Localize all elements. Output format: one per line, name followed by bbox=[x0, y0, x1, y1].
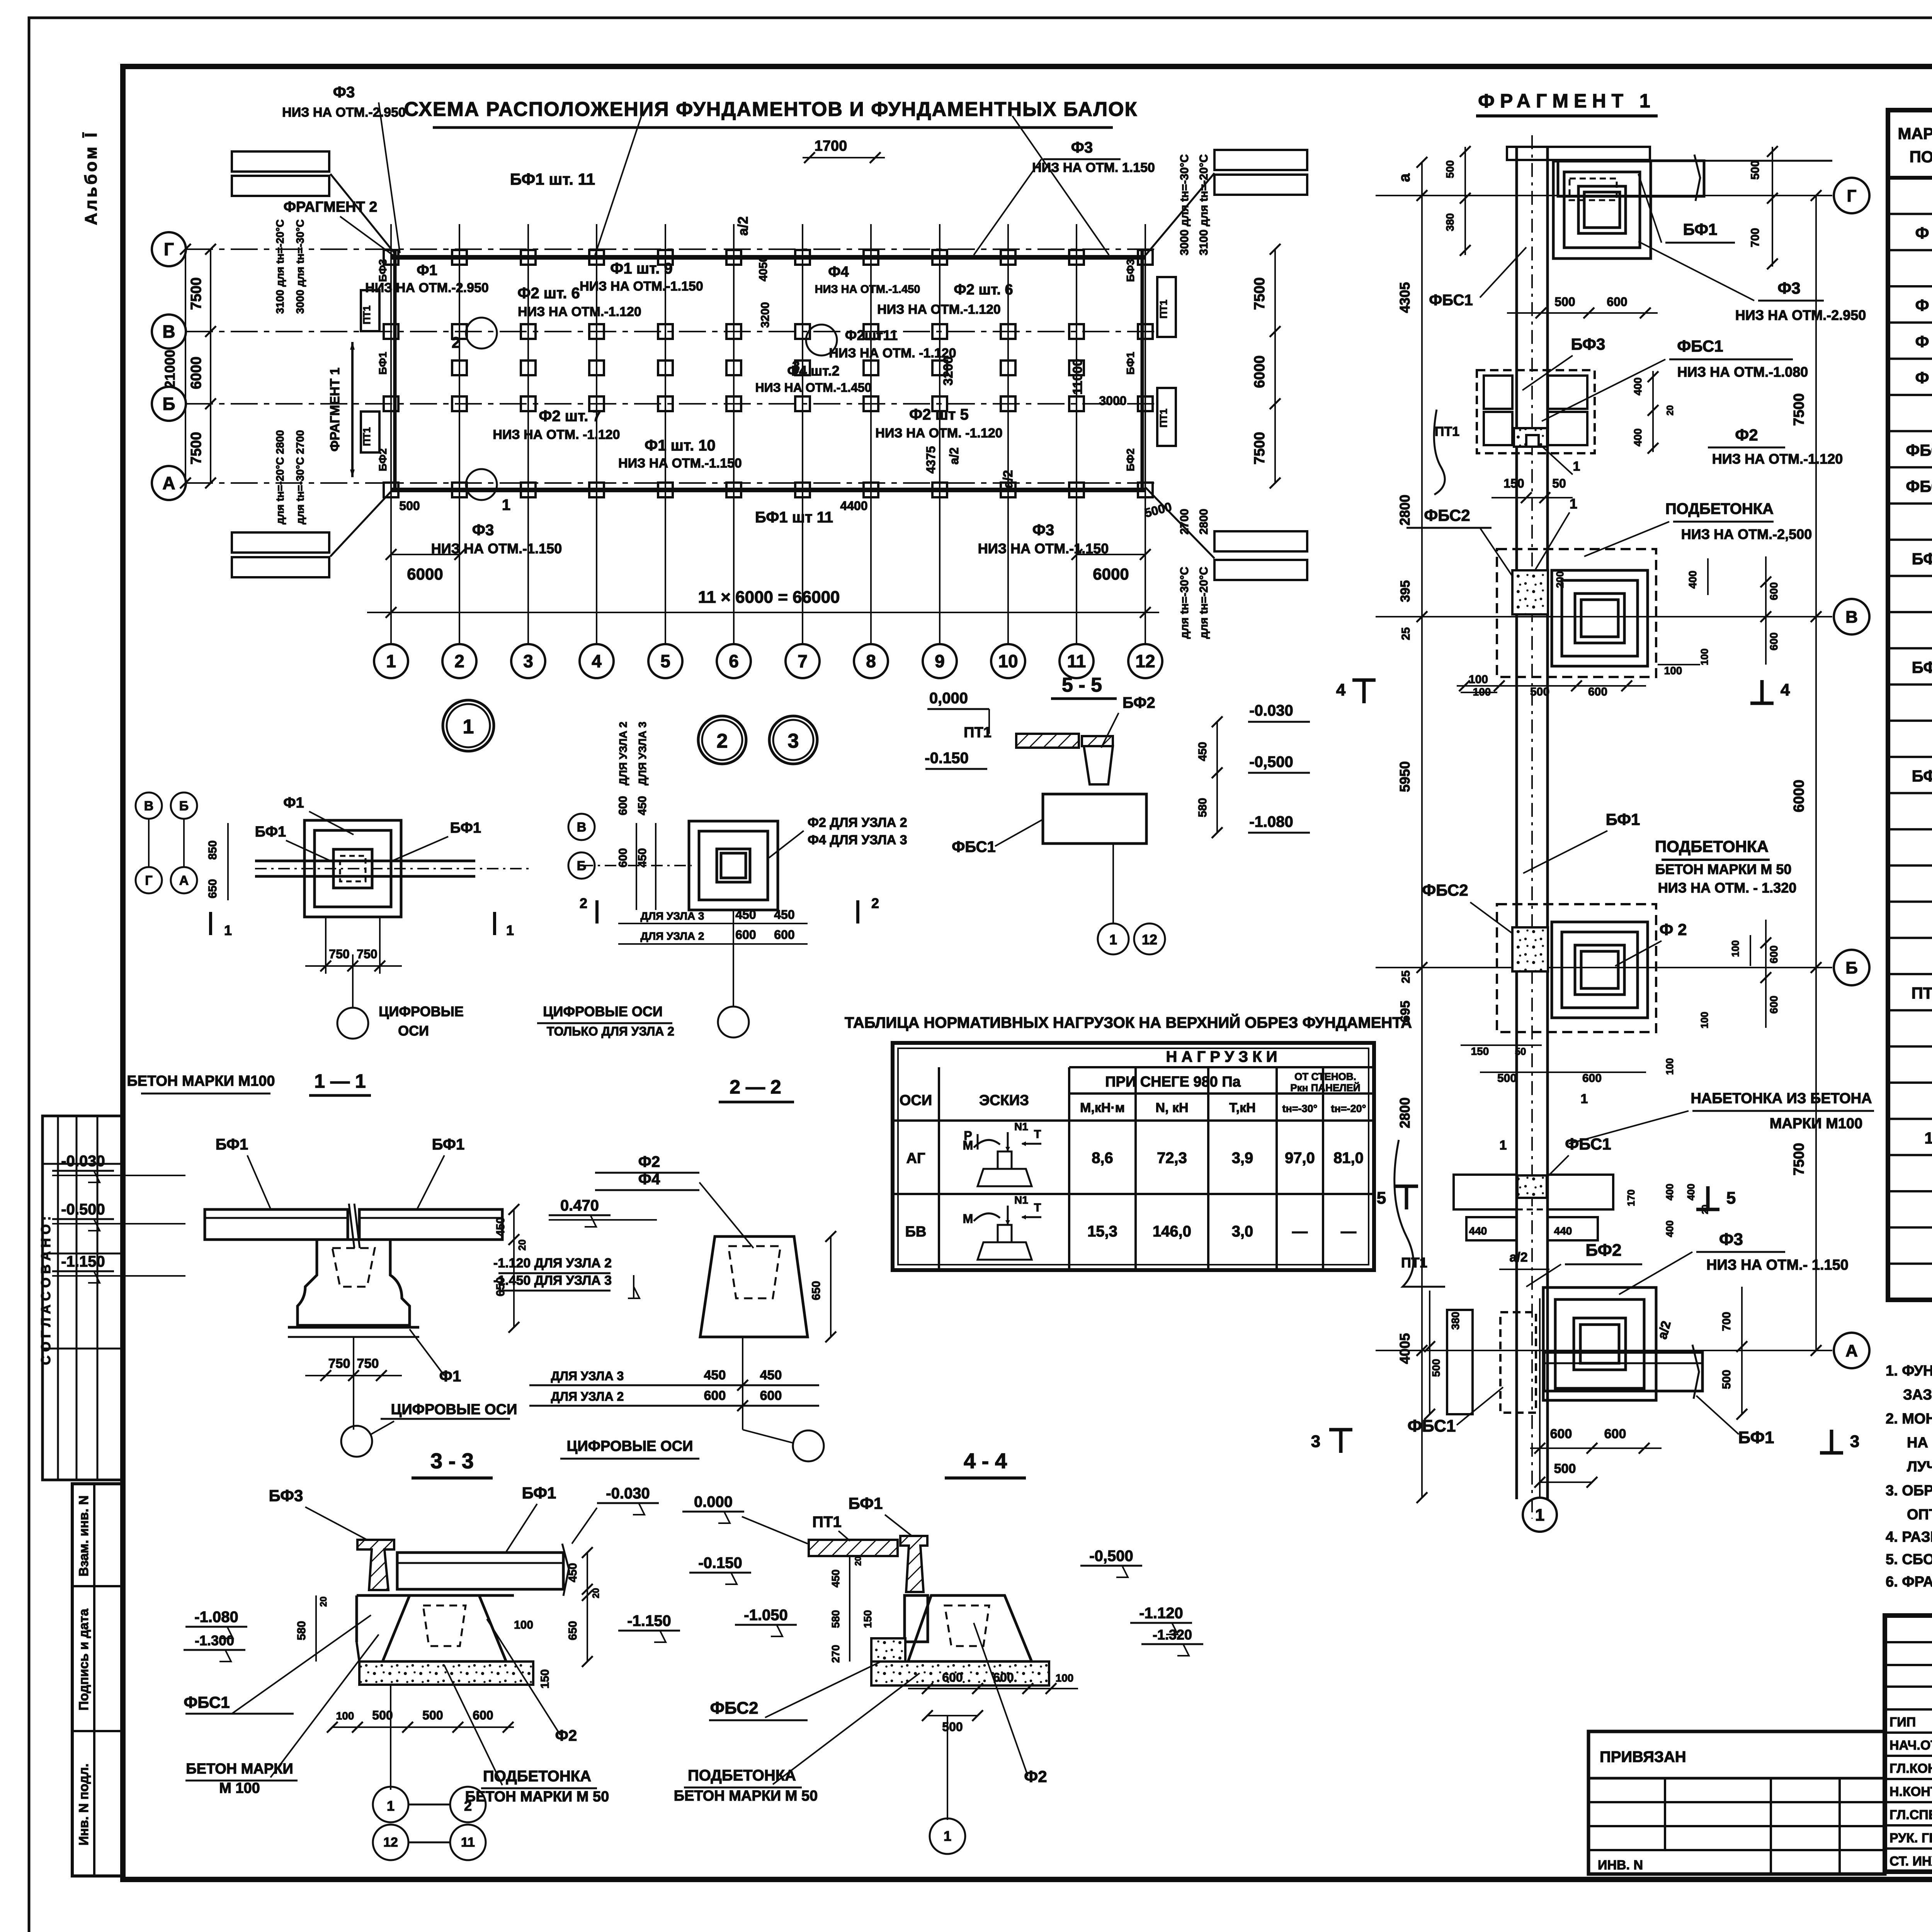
svg-text:ЭСКИЗ: ЭСКИЗ bbox=[979, 1092, 1029, 1109]
svg-text:3: 3 bbox=[1850, 1432, 1859, 1451]
svg-text:150: 150 bbox=[1503, 476, 1524, 490]
svg-text:600: 600 bbox=[473, 1708, 493, 1722]
svg-text:-1.320: -1.320 bbox=[1153, 1627, 1192, 1643]
svg-text:6000: 6000 bbox=[1252, 355, 1268, 388]
svg-text:580: 580 bbox=[830, 1610, 842, 1628]
svg-text:В: В bbox=[162, 321, 175, 342]
svg-text:Б: Б bbox=[162, 394, 175, 414]
svg-text:500: 500 bbox=[1497, 1072, 1517, 1085]
svg-text:БЕТОН МАРКИ М 50: БЕТОН МАРКИ М 50 bbox=[465, 1789, 609, 1805]
column footing squares grid bbox=[384, 250, 398, 265]
svg-text:Ф 3: Ф 3 bbox=[1915, 332, 1932, 350]
svg-text:3000 для tн=-30°С: 3000 для tн=-30°С bbox=[1178, 154, 1191, 255]
svg-text:440: 440 bbox=[1469, 1225, 1487, 1237]
svg-text:11: 11 bbox=[1067, 651, 1086, 671]
svg-text:Г: Г bbox=[145, 873, 152, 888]
svg-text:Р: Р bbox=[964, 1129, 972, 1143]
fragment foundation at Г bbox=[1553, 161, 1651, 259]
svg-text:ДЛЯ УЗЛА 2: ДЛЯ УЗЛА 2 bbox=[641, 930, 704, 942]
svg-text:ДЛЯ УЗЛА 3: ДЛЯ УЗЛА 3 bbox=[641, 910, 704, 922]
svg-text:БЕТОН МАРКИ М 50: БЕТОН МАРКИ М 50 bbox=[1655, 861, 1792, 877]
svg-text:ПОДБЕТОНКА: ПОДБЕТОНКА bbox=[483, 1768, 591, 1785]
svg-text:440: 440 bbox=[1554, 1225, 1572, 1237]
svg-text:6000: 6000 bbox=[407, 565, 443, 583]
svg-text:750: 750 bbox=[357, 947, 377, 961]
svg-text:-1.300: -1.300 bbox=[195, 1633, 234, 1648]
svg-text:650: 650 bbox=[810, 1281, 823, 1300]
end wall panels left bbox=[232, 151, 329, 172]
svg-text:Н А Г Р У З К И: Н А Г Р У З К И bbox=[1166, 1048, 1277, 1065]
svg-text:1: 1 bbox=[387, 1798, 395, 1814]
svg-text:2: 2 bbox=[454, 651, 464, 671]
dim 1700 bbox=[803, 157, 885, 158]
svg-text:Ф3: Ф3 bbox=[1777, 279, 1800, 297]
svg-text:Подпись и дата: Подпись и дата bbox=[77, 1608, 91, 1711]
svg-text:БФ1: БФ1 bbox=[216, 1136, 248, 1153]
svg-text:3000 для tн=-30°С: 3000 для tн=-30°С bbox=[294, 219, 306, 314]
svg-text:БФ1: БФ1 bbox=[1912, 549, 1932, 568]
svg-text:450: 450 bbox=[636, 796, 649, 815]
section 2-2 drawing bbox=[700, 1236, 808, 1337]
svg-text:БЕТОН МАРКИ М100: БЕТОН МАРКИ М100 bbox=[127, 1073, 275, 1089]
svg-text:20: 20 bbox=[318, 1597, 329, 1607]
leader lines plan bbox=[379, 102, 400, 253]
svg-text:5: 5 bbox=[660, 651, 670, 671]
svg-text:Ф2: Ф2 bbox=[1024, 1767, 1047, 1786]
svg-text:600: 600 bbox=[1768, 946, 1780, 964]
svg-text:а: а bbox=[1396, 173, 1413, 182]
svg-text:Ф1: Ф1 bbox=[439, 1368, 461, 1385]
svg-text:ФРАГМЕНТ 1: ФРАГМЕНТ 1 bbox=[1478, 90, 1655, 112]
svg-text:для tн=-20°С 2800: для tн=-20°С 2800 bbox=[274, 430, 286, 524]
svg-text:НАБЕТОНКА ИЗ БЕТОНА: НАБЕТОНКА ИЗ БЕТОНА bbox=[1690, 1090, 1872, 1107]
svg-text:1: 1 bbox=[1570, 496, 1577, 512]
left stamp boxes lower bbox=[72, 1484, 123, 1876]
svg-text:600: 600 bbox=[1604, 1427, 1626, 1441]
svg-text:450: 450 bbox=[830, 1570, 842, 1588]
node detail circles 2 3 bbox=[698, 716, 746, 764]
svg-text:4305: 4305 bbox=[1397, 282, 1413, 313]
svg-text:БФ3: БФ3 bbox=[269, 1486, 303, 1505]
svg-text:БФ3: БФ3 bbox=[1571, 335, 1605, 353]
node plan 1 bbox=[304, 820, 401, 917]
svg-text:МАРКА,: МАРКА, bbox=[1898, 124, 1932, 143]
svg-text:-1.080: -1.080 bbox=[194, 1609, 238, 1626]
svg-text:М,кН·м: М,кН·м bbox=[1080, 1100, 1125, 1115]
svg-text:ФРАГМЕНТ 2: ФРАГМЕНТ 2 bbox=[284, 199, 378, 215]
svg-text:Ф 2: Ф 2 bbox=[1660, 920, 1687, 939]
svg-text:В: В bbox=[577, 820, 587, 835]
svg-text:ПОДБЕТОНКА: ПОДБЕТОНКА bbox=[1665, 500, 1774, 517]
svg-text:4. РАЗМЕР „а” ПРИНИМАТЬ СОГЛА: 4. РАЗМЕР „а” ПРИНИМАТЬ СОГЛАСНО ТАБЛИЦЕ… bbox=[1886, 1529, 1932, 1545]
svg-text:20: 20 bbox=[1665, 405, 1675, 416]
svg-text:600: 600 bbox=[942, 1670, 963, 1684]
svg-text:N1: N1 bbox=[1014, 1121, 1028, 1133]
svg-text:1700: 1700 bbox=[815, 138, 847, 154]
svg-text:270: 270 bbox=[830, 1645, 842, 1663]
svg-text:0.470: 0.470 bbox=[560, 1197, 599, 1214]
svg-text:Ф1 шт. 10: Ф1 шт. 10 bbox=[645, 437, 716, 454]
svg-text:200: 200 bbox=[1554, 571, 1566, 588]
svg-text:ФБС1: ФБС1 bbox=[1906, 441, 1932, 459]
svg-text:1: 1 bbox=[1924, 1129, 1932, 1147]
svg-text:500: 500 bbox=[1530, 685, 1549, 698]
svg-text:БФ3: БФ3 bbox=[377, 259, 389, 282]
svg-text:4: 4 bbox=[592, 651, 602, 671]
svg-text:500: 500 bbox=[422, 1708, 443, 1722]
svg-text:7500: 7500 bbox=[1252, 277, 1268, 310]
svg-text:450: 450 bbox=[704, 1368, 726, 1383]
svg-text:БФ1 шт. 11: БФ1 шт. 11 bbox=[510, 170, 595, 188]
svg-text:1: 1 bbox=[944, 1828, 951, 1844]
svg-text:0.000: 0.000 bbox=[694, 1493, 733, 1510]
svg-text:25: 25 bbox=[1400, 627, 1412, 640]
load table bbox=[893, 1043, 1374, 1270]
svg-text:ПОДБЕТОНКА: ПОДБЕТОНКА bbox=[1655, 837, 1769, 855]
svg-text:2800: 2800 bbox=[1197, 509, 1210, 535]
svg-text:400: 400 bbox=[1664, 1220, 1675, 1237]
svg-text:НИЗ НА ОТМ.-1.150: НИЗ НА ОТМ.-1.150 bbox=[618, 456, 742, 471]
svg-text:450: 450 bbox=[636, 848, 649, 867]
svg-text:БФ1: БФ1 bbox=[1683, 220, 1718, 238]
svg-text:tн=-20°: tн=-20° bbox=[1331, 1103, 1366, 1114]
svg-text:750: 750 bbox=[329, 947, 349, 961]
svg-text:-1.120 ДЛЯ УЗЛА 2: -1.120 ДЛЯ УЗЛА 2 bbox=[493, 1256, 612, 1270]
svg-text:1: 1 bbox=[1535, 1505, 1544, 1524]
svg-text:7500: 7500 bbox=[1791, 1143, 1807, 1176]
svg-text:НАЧ.ОТД.: НАЧ.ОТД. bbox=[1889, 1738, 1932, 1753]
svg-text:700: 700 bbox=[1720, 1312, 1733, 1331]
svg-text:-1.080: -1.080 bbox=[1249, 813, 1293, 830]
svg-text:4 - 4: 4 - 4 bbox=[964, 1449, 1007, 1473]
svg-text:С О Г Л А С О В А Н О :: С О Г Л А С О В А Н О : bbox=[39, 1216, 53, 1365]
svg-text:600: 600 bbox=[774, 928, 794, 942]
svg-text:380: 380 bbox=[1449, 1312, 1461, 1330]
svg-text:0,000: 0,000 bbox=[929, 690, 968, 707]
svg-text:НИЗ НА ОТМ.-1.120: НИЗ НА ОТМ.-1.120 bbox=[1712, 451, 1843, 467]
svg-text:-0.030: -0.030 bbox=[606, 1485, 650, 1502]
svg-text:100: 100 bbox=[336, 1710, 354, 1722]
svg-text:ИНВ. N: ИНВ. N bbox=[1598, 1858, 1643, 1872]
svg-text:450: 450 bbox=[494, 1217, 507, 1236]
svg-text:11 × 6000 = 66000: 11 × 6000 = 66000 bbox=[698, 588, 840, 607]
svg-text:600: 600 bbox=[1768, 582, 1780, 600]
svg-text:СХЕМА РАСПОЛОЖЕНИЯ ФУНДАМЕНТ: СХЕМА РАСПОЛОЖЕНИЯ ФУНДАМЕНТОВ И ФУНДАМЕ… bbox=[404, 98, 1138, 121]
svg-text:ПРИВЯЗАН: ПРИВЯЗАН bbox=[1600, 1748, 1686, 1765]
svg-text:Ф3: Ф3 bbox=[1032, 522, 1054, 539]
section marks 5-5 bbox=[1405, 1186, 1408, 1209]
svg-text:-0.500: -0.500 bbox=[61, 1201, 105, 1218]
svg-text:15,3: 15,3 bbox=[1087, 1223, 1117, 1240]
svg-text:600: 600 bbox=[1607, 295, 1627, 309]
svg-text:для tн=-20°С: для tн=-20°С bbox=[1197, 567, 1210, 639]
svg-text:2: 2 bbox=[464, 1798, 472, 1814]
svg-text:4005: 4005 bbox=[1397, 1333, 1413, 1364]
svg-text:7500: 7500 bbox=[1791, 393, 1807, 426]
svg-text:100: 100 bbox=[1056, 1672, 1074, 1684]
svg-text:БФ3: БФ3 bbox=[1912, 767, 1932, 785]
svg-text:3200: 3200 bbox=[759, 302, 772, 328]
svg-text:-0.030: -0.030 bbox=[1249, 702, 1293, 719]
svg-text:500: 500 bbox=[1749, 160, 1762, 180]
svg-text:72,3: 72,3 bbox=[1157, 1150, 1187, 1167]
svg-text:7: 7 bbox=[798, 651, 808, 671]
svg-text:tн=-30°: tн=-30° bbox=[1282, 1103, 1318, 1114]
svg-text:850: 850 bbox=[206, 840, 219, 860]
svg-text:2. МОНОЛИТНЫЕ ЭЛЕМЕНТЫ ПОДБЕ: 2. МОНОЛИТНЫЕ ЭЛЕМЕНТЫ ПОДБЕТОНОК ИЗ БЕТ… bbox=[1886, 1410, 1932, 1427]
svg-text:БФ1: БФ1 bbox=[450, 820, 481, 836]
svg-text:НИЗ НА ОТМ. -1.120: НИЗ НА ОТМ. -1.120 bbox=[875, 426, 1002, 440]
svg-text:2: 2 bbox=[452, 334, 460, 351]
section marks 1-1 at node 1 bbox=[209, 912, 212, 935]
svg-text:600: 600 bbox=[760, 1388, 782, 1403]
svg-text:7500: 7500 bbox=[188, 432, 204, 465]
svg-text:4375: 4375 bbox=[924, 446, 938, 473]
svg-text:395: 395 bbox=[1398, 580, 1413, 602]
section marks 3-3 bbox=[1339, 1430, 1343, 1453]
svg-text:500: 500 bbox=[1720, 1370, 1733, 1389]
svg-text:ЦИФРОВЫЕ: ЦИФРОВЫЕ bbox=[379, 1003, 464, 1019]
svg-text:100: 100 bbox=[514, 1619, 533, 1631]
svg-text:БФ1: БФ1 bbox=[522, 1484, 556, 1502]
privyazan attachment box bbox=[1588, 1731, 1885, 1874]
svg-text:ЗАЗОРЫ МЕЖДУ ТОРЦАМИ ФУНДАМ: ЗАЗОРЫ МЕЖДУ ТОРЦАМИ ФУНДАМЕНТНЫХ БАЛОК … bbox=[1903, 1387, 1932, 1403]
svg-text:3: 3 bbox=[788, 730, 799, 752]
svg-text:а/2: а/2 bbox=[1509, 1250, 1527, 1265]
svg-text:580: 580 bbox=[295, 1621, 308, 1640]
svg-text:НИЗ НА ОТМ.-1.450: НИЗ НА ОТМ.-1.450 bbox=[755, 381, 872, 395]
svg-text:3,0: 3,0 bbox=[1232, 1223, 1253, 1240]
svg-text:500: 500 bbox=[1554, 1461, 1576, 1476]
svg-text:НИЗ НА ОТМ. 1.150: НИЗ НА ОТМ. 1.150 bbox=[1032, 160, 1155, 175]
svg-text:Альбом Ī: Альбом Ī bbox=[82, 130, 100, 225]
svg-text:Н.КОНТР.: Н.КОНТР. bbox=[1889, 1784, 1932, 1799]
plan detail mark circles bbox=[466, 318, 497, 349]
svg-text:ЦИФРОВЫЕ ОСИ: ЦИФРОВЫЕ ОСИ bbox=[391, 1401, 517, 1418]
svg-text:3100 для tн=-20°С: 3100 для tн=-20°С bbox=[1197, 154, 1210, 255]
svg-text:1: 1 bbox=[502, 497, 510, 514]
svg-text:-1.150: -1.150 bbox=[61, 1253, 105, 1270]
svg-text:N1: N1 bbox=[1014, 1194, 1028, 1206]
svg-text:100: 100 bbox=[1699, 1012, 1710, 1028]
svg-text:БФ1 шт 11: БФ1 шт 11 bbox=[755, 509, 833, 526]
svg-text:2800: 2800 bbox=[1397, 495, 1413, 526]
svg-text:5: 5 bbox=[1377, 1189, 1386, 1207]
svg-text:5: 5 bbox=[1726, 1189, 1736, 1207]
svg-text:20: 20 bbox=[853, 1556, 863, 1566]
svg-text:150: 150 bbox=[862, 1610, 874, 1628]
svg-text:НИЗ НА ОТМ.-1.120: НИЗ НА ОТМ.-1.120 bbox=[877, 302, 1001, 317]
svg-text:9: 9 bbox=[935, 651, 945, 671]
svg-text:-1.120: -1.120 bbox=[1139, 1605, 1183, 1622]
svg-text:500: 500 bbox=[942, 1720, 963, 1734]
svg-text:Ф3: Ф3 bbox=[472, 522, 494, 539]
svg-text:НИЗ НА ОТМ. - 1.320: НИЗ НА ОТМ. - 1.320 bbox=[1658, 880, 1797, 896]
svg-text:7500: 7500 bbox=[1252, 432, 1268, 465]
svg-text:Ф3: Ф3 bbox=[1071, 139, 1093, 156]
svg-text:ПТ1: ПТ1 bbox=[361, 305, 372, 324]
svg-text:ФБС2: ФБС2 bbox=[1422, 881, 1468, 899]
svg-text:750: 750 bbox=[328, 1356, 350, 1371]
svg-text:1: 1 bbox=[1573, 459, 1580, 474]
svg-text:ДЛЯ УЗЛА 3: ДЛЯ УЗЛА 3 bbox=[636, 722, 648, 786]
svg-text:2 — 2: 2 — 2 bbox=[730, 1076, 781, 1098]
svg-text:М 100: М 100 bbox=[219, 1780, 260, 1796]
svg-text:Ф2: Ф2 bbox=[1735, 426, 1758, 444]
svg-text:ЦИФРОВЫЕ ОСИ: ЦИФРОВЫЕ ОСИ bbox=[543, 1003, 663, 1019]
svg-text:БФ1: БФ1 bbox=[1606, 810, 1640, 828]
svg-text:А: А bbox=[1845, 1341, 1858, 1360]
svg-text:1. ФУНДАМЕНТНЫЕ БАЛКИ УКЛАДЫ: 1. ФУНДАМЕНТНЫЕ БАЛКИ УКЛАДЫВАТЬ НА СЛОЙ… bbox=[1886, 1362, 1932, 1379]
svg-text:ОТ СТЕНОВ.: ОТ СТЕНОВ. bbox=[1294, 1071, 1356, 1082]
svg-text:N, кН: N, кН bbox=[1155, 1100, 1188, 1115]
svg-text:РУК. ГР.: РУК. ГР. bbox=[1889, 1831, 1932, 1845]
title block frame bbox=[1885, 1616, 1932, 1872]
fragment axis В bbox=[1376, 616, 1832, 617]
svg-text:ФБС2: ФБС2 bbox=[1424, 506, 1470, 524]
svg-text:Ф2: Ф2 bbox=[555, 1727, 577, 1744]
svg-text:650: 650 bbox=[206, 879, 219, 898]
svg-text:ТОЛЬКО ДЛЯ УЗЛА 2: ТОЛЬКО ДЛЯ УЗЛА 2 bbox=[547, 1024, 674, 1038]
svg-text:5 - 5: 5 - 5 bbox=[1062, 674, 1102, 696]
svg-text:6000: 6000 bbox=[1093, 565, 1129, 583]
svg-text:-0,500: -0,500 bbox=[1249, 753, 1293, 770]
svg-text:Г: Г bbox=[164, 239, 174, 259]
svg-text:-1.050: -1.050 bbox=[744, 1607, 787, 1624]
svg-text:100: 100 bbox=[1699, 648, 1710, 665]
row axis circles bbox=[152, 232, 186, 266]
svg-text:НИЗ НА ОТМ. -1.120: НИЗ НА ОТМ. -1.120 bbox=[829, 346, 956, 361]
svg-text:1: 1 bbox=[506, 922, 514, 938]
svg-text:2800: 2800 bbox=[1397, 1097, 1413, 1128]
svg-text:Ф2: Ф2 bbox=[638, 1153, 660, 1170]
svg-text:-1.450 ДЛЯ УЗЛА 3: -1.450 ДЛЯ УЗЛА 3 bbox=[493, 1273, 612, 1288]
svg-text:ФБС1: ФБС1 bbox=[1408, 1417, 1456, 1435]
svg-text:5. СБОРНЫЕ ФУНДАМЕНТЫ ВЫПОЛН: 5. СБОРНЫЕ ФУНДАМЕНТЫ ВЫПОЛНЯТЬ ИЗ БЕТОН… bbox=[1886, 1550, 1932, 1568]
svg-text:6000: 6000 bbox=[188, 357, 204, 389]
svg-text:НИЗ НА ОТМ.-2.950: НИЗ НА ОТМ.-2.950 bbox=[365, 281, 489, 295]
svg-text:ФБС2: ФБС2 bbox=[1906, 477, 1932, 495]
svg-text:НИЗ НА ОТМ.-1.450: НИЗ НА ОТМ.-1.450 bbox=[815, 283, 920, 296]
svg-text:НИЗ НА ОТМ.-2.950: НИЗ НА ОТМ.-2.950 bbox=[282, 105, 406, 120]
fragment right dim chain bbox=[1815, 196, 1817, 1350]
svg-text:1: 1 bbox=[224, 922, 232, 938]
svg-text:20: 20 bbox=[516, 1240, 528, 1251]
svg-text:ФБС1: ФБС1 bbox=[1429, 292, 1473, 309]
svg-text:М: М bbox=[963, 1212, 973, 1226]
svg-text:Ф2 шт. 6: Ф2 шт. 6 bbox=[517, 285, 580, 302]
fragment axis Б bbox=[1376, 967, 1832, 968]
svg-text:100: 100 bbox=[1730, 940, 1741, 957]
svg-text:600: 600 bbox=[1768, 633, 1780, 651]
svg-text:НИЗ НА ОТМ.-1.150: НИЗ НА ОТМ.-1.150 bbox=[978, 541, 1109, 556]
svg-text:12: 12 bbox=[383, 1835, 398, 1850]
svg-text:3 - 3: 3 - 3 bbox=[430, 1449, 474, 1473]
svg-text:400: 400 bbox=[1687, 571, 1699, 589]
svg-text:ПТ 1: ПТ 1 bbox=[1912, 984, 1932, 1002]
svg-text:11000: 11000 bbox=[1070, 359, 1085, 395]
svg-text:БФ1: БФ1 bbox=[849, 1494, 883, 1512]
plan column axis verticals + numbered circles bbox=[390, 224, 392, 644]
section 3-3 drawing bbox=[357, 1540, 394, 1590]
svg-text:Ф 4: Ф 4 bbox=[1915, 369, 1932, 387]
svg-text:Ф3: Ф3 bbox=[1719, 1230, 1743, 1249]
svg-text:БФ3: БФ3 bbox=[1124, 259, 1136, 282]
svg-text:700: 700 bbox=[1749, 228, 1762, 247]
svg-text:ДЛЯ УЗЛА 3: ДЛЯ УЗЛА 3 bbox=[551, 1369, 624, 1383]
svg-text:ПТ1: ПТ1 bbox=[1158, 299, 1169, 318]
svg-text:НИЗ НА ОТМ.-1.150: НИЗ НА ОТМ.-1.150 bbox=[431, 541, 562, 556]
svg-text:ПТ1: ПТ1 bbox=[361, 427, 372, 446]
svg-text:4400: 4400 bbox=[840, 499, 867, 513]
svg-text:100: 100 bbox=[1469, 673, 1488, 686]
svg-text:10: 10 bbox=[998, 651, 1018, 671]
svg-text:6000: 6000 bbox=[1791, 780, 1807, 813]
svg-text:2700: 2700 bbox=[1178, 509, 1191, 535]
svg-text:650: 650 bbox=[566, 1621, 579, 1640]
svg-text:500: 500 bbox=[1430, 1359, 1442, 1377]
svg-text:а/2: а/2 bbox=[735, 216, 751, 236]
svg-text:Т,кН: Т,кН bbox=[1229, 1100, 1255, 1115]
svg-text:Т: Т bbox=[1034, 1201, 1041, 1214]
svg-text:Ф1: Ф1 bbox=[417, 262, 437, 279]
svg-text:600: 600 bbox=[704, 1388, 726, 1403]
svg-text:150: 150 bbox=[539, 1669, 551, 1689]
svg-text:ПОДБЕТОНКА: ПОДБЕТОНКА bbox=[688, 1767, 796, 1784]
svg-text:Ф2 ДЛЯ УЗЛА 2: Ф2 ДЛЯ УЗЛА 2 bbox=[808, 815, 907, 830]
svg-text:Ф1 шт. 9: Ф1 шт. 9 bbox=[610, 260, 672, 277]
svg-text:11: 11 bbox=[461, 1835, 475, 1850]
svg-text:50: 50 bbox=[1515, 1046, 1526, 1057]
svg-text:БФ1: БФ1 bbox=[432, 1136, 465, 1153]
svg-text:450: 450 bbox=[566, 1563, 579, 1582]
svg-text:а/2: а/2 bbox=[1001, 470, 1015, 488]
svg-text:25: 25 bbox=[1400, 970, 1412, 983]
svg-text:-1.150: -1.150 bbox=[627, 1612, 671, 1629]
svg-text:3: 3 bbox=[1311, 1432, 1320, 1451]
svg-text:50: 50 bbox=[1552, 476, 1566, 490]
svg-text:4: 4 bbox=[1781, 680, 1790, 699]
svg-text:450: 450 bbox=[760, 1368, 782, 1383]
svg-text:Б: Б bbox=[179, 799, 189, 813]
svg-text:ПТ1: ПТ1 bbox=[1435, 424, 1459, 439]
svg-text:ФБС1: ФБС1 bbox=[1677, 337, 1723, 355]
svg-text:—: — bbox=[1292, 1223, 1308, 1240]
svg-text:БФ2: БФ2 bbox=[377, 448, 389, 471]
fragment axis 1 vertical bbox=[1539, 1298, 1541, 1498]
svg-text:750: 750 bbox=[357, 1356, 379, 1371]
svg-text:ДЛЯ УЗЛА 2: ДЛЯ УЗЛА 2 bbox=[551, 1389, 624, 1403]
svg-text:1: 1 bbox=[386, 651, 396, 671]
fragment brackets bbox=[351, 342, 354, 477]
svg-text:Инв. N подл.: Инв. N подл. bbox=[77, 1764, 91, 1845]
svg-text:3200: 3200 bbox=[941, 356, 956, 386]
svg-text:7500: 7500 bbox=[188, 277, 204, 310]
svg-text:БФ2: БФ2 bbox=[1585, 1241, 1621, 1260]
svg-text:НИЗ НА ОТМ.-2.950: НИЗ НА ОТМ.-2.950 bbox=[1735, 307, 1866, 323]
svg-text:СТ. ИНЖ.: СТ. ИНЖ. bbox=[1889, 1854, 1932, 1869]
svg-text:ОСИ: ОСИ bbox=[398, 1023, 429, 1039]
svg-text:НИЗ НА ОТМ. -1.120: НИЗ НА ОТМ. -1.120 bbox=[493, 427, 620, 442]
svg-text:400: 400 bbox=[1632, 429, 1644, 447]
svg-text:Ф2шт11: Ф2шт11 bbox=[845, 327, 898, 343]
fragment foundation at В bbox=[1552, 570, 1648, 666]
svg-text:ДЛЯ УЗЛА 2: ДЛЯ УЗЛА 2 bbox=[617, 722, 629, 786]
fragment left dim chain bbox=[1421, 162, 1423, 1498]
svg-text:600: 600 bbox=[735, 928, 756, 942]
svg-text:НИЗ НА ОТМ.- 1.150: НИЗ НА ОТМ.- 1.150 bbox=[1706, 1257, 1849, 1273]
bottom dim line 11x6000=66000 bbox=[367, 612, 1159, 613]
